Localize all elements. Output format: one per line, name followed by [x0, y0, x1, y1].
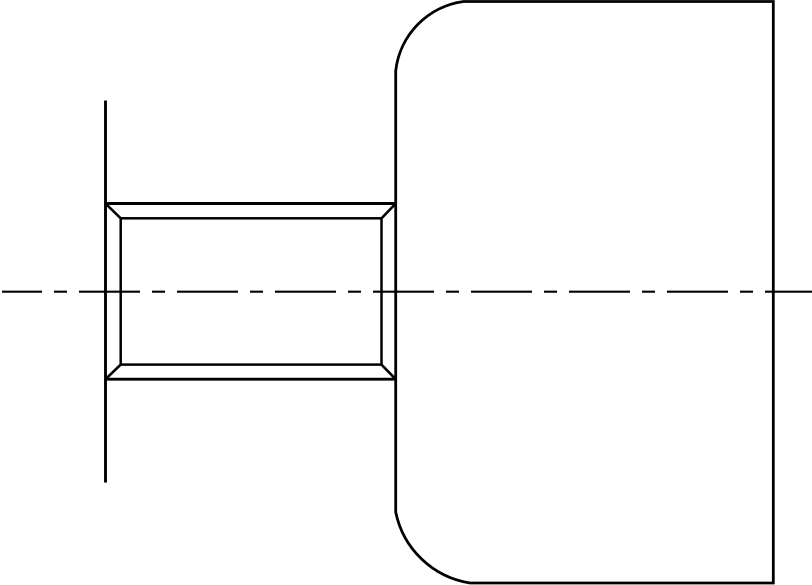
thread inner rectangle (minor diameter) — [121, 218, 382, 364]
centerline (horizontal dash-dot axis) — [2, 291, 812, 293]
chamfer diagonal top-right — [382, 204, 396, 219]
chamfer diagonal bottom-left — [106, 365, 121, 380]
chamfer diagonal bottom-right — [382, 365, 396, 380]
thread outer bottom edge — [104, 378, 396, 381]
thread outer top edge — [104, 202, 396, 205]
chamfer diagonal top-left — [106, 204, 121, 219]
cylindrical body outline (rounded left corners, square right corners) — [396, 2, 774, 584]
left vertical edge line — [104, 101, 107, 483]
